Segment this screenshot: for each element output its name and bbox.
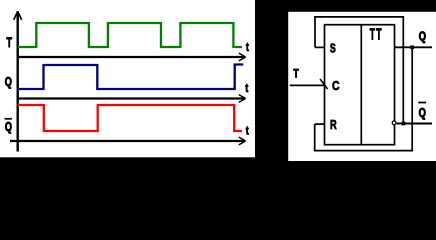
waveform Q (blue) xyxy=(18,65,243,90)
dynamic input marker xyxy=(320,79,328,89)
svg-text:T: T xyxy=(376,27,382,44)
arrowhead axis 3 xyxy=(239,137,246,145)
R input wire xyxy=(315,123,325,125)
svg-text:T: T xyxy=(6,35,12,50)
S input wire xyxy=(315,46,325,48)
arrowhead axis 2 xyxy=(239,95,246,103)
Q-bar output wire xyxy=(397,123,433,125)
vertical axis arrowhead xyxy=(14,11,22,19)
junction dot Q-bar/feedback xyxy=(402,122,406,126)
divider line xyxy=(360,25,362,145)
feedback wire: Q to R (bottom) xyxy=(315,47,413,150)
svg-text:t: t xyxy=(246,124,249,138)
svg-text:Q: Q xyxy=(419,105,426,120)
waveform Q-bar (red) xyxy=(18,105,242,131)
time axis row 2 xyxy=(17,97,246,99)
T input wire xyxy=(290,84,325,86)
svg-text:t: t xyxy=(246,40,249,54)
feedback wire: Q-bar to S (top) xyxy=(315,17,403,124)
right schematic panel background xyxy=(288,12,436,161)
svg-text:Q: Q xyxy=(5,119,12,134)
vertical axis xyxy=(17,12,19,152)
svg-text:C: C xyxy=(332,78,340,93)
svg-text:t: t xyxy=(245,81,248,95)
left waveform panel background xyxy=(0,0,255,157)
junction dot Q/feedback xyxy=(410,45,414,49)
svg-text:R: R xyxy=(330,117,337,132)
arrowhead axis 1 xyxy=(239,53,246,61)
black canvas background xyxy=(0,0,436,161)
flip-flop body box xyxy=(325,25,395,145)
inversion bubble on Q-bar output xyxy=(392,121,396,125)
svg-text:Q: Q xyxy=(419,29,426,44)
time axis row 1 xyxy=(17,56,246,58)
waveform T (green) xyxy=(18,23,242,47)
svg-text:Q: Q xyxy=(5,74,12,89)
svg-text:T: T xyxy=(370,27,376,44)
time axis row 3 xyxy=(10,140,245,142)
svg-text:S: S xyxy=(330,40,336,55)
Q output wire xyxy=(395,46,433,48)
svg-text:T: T xyxy=(293,68,299,81)
